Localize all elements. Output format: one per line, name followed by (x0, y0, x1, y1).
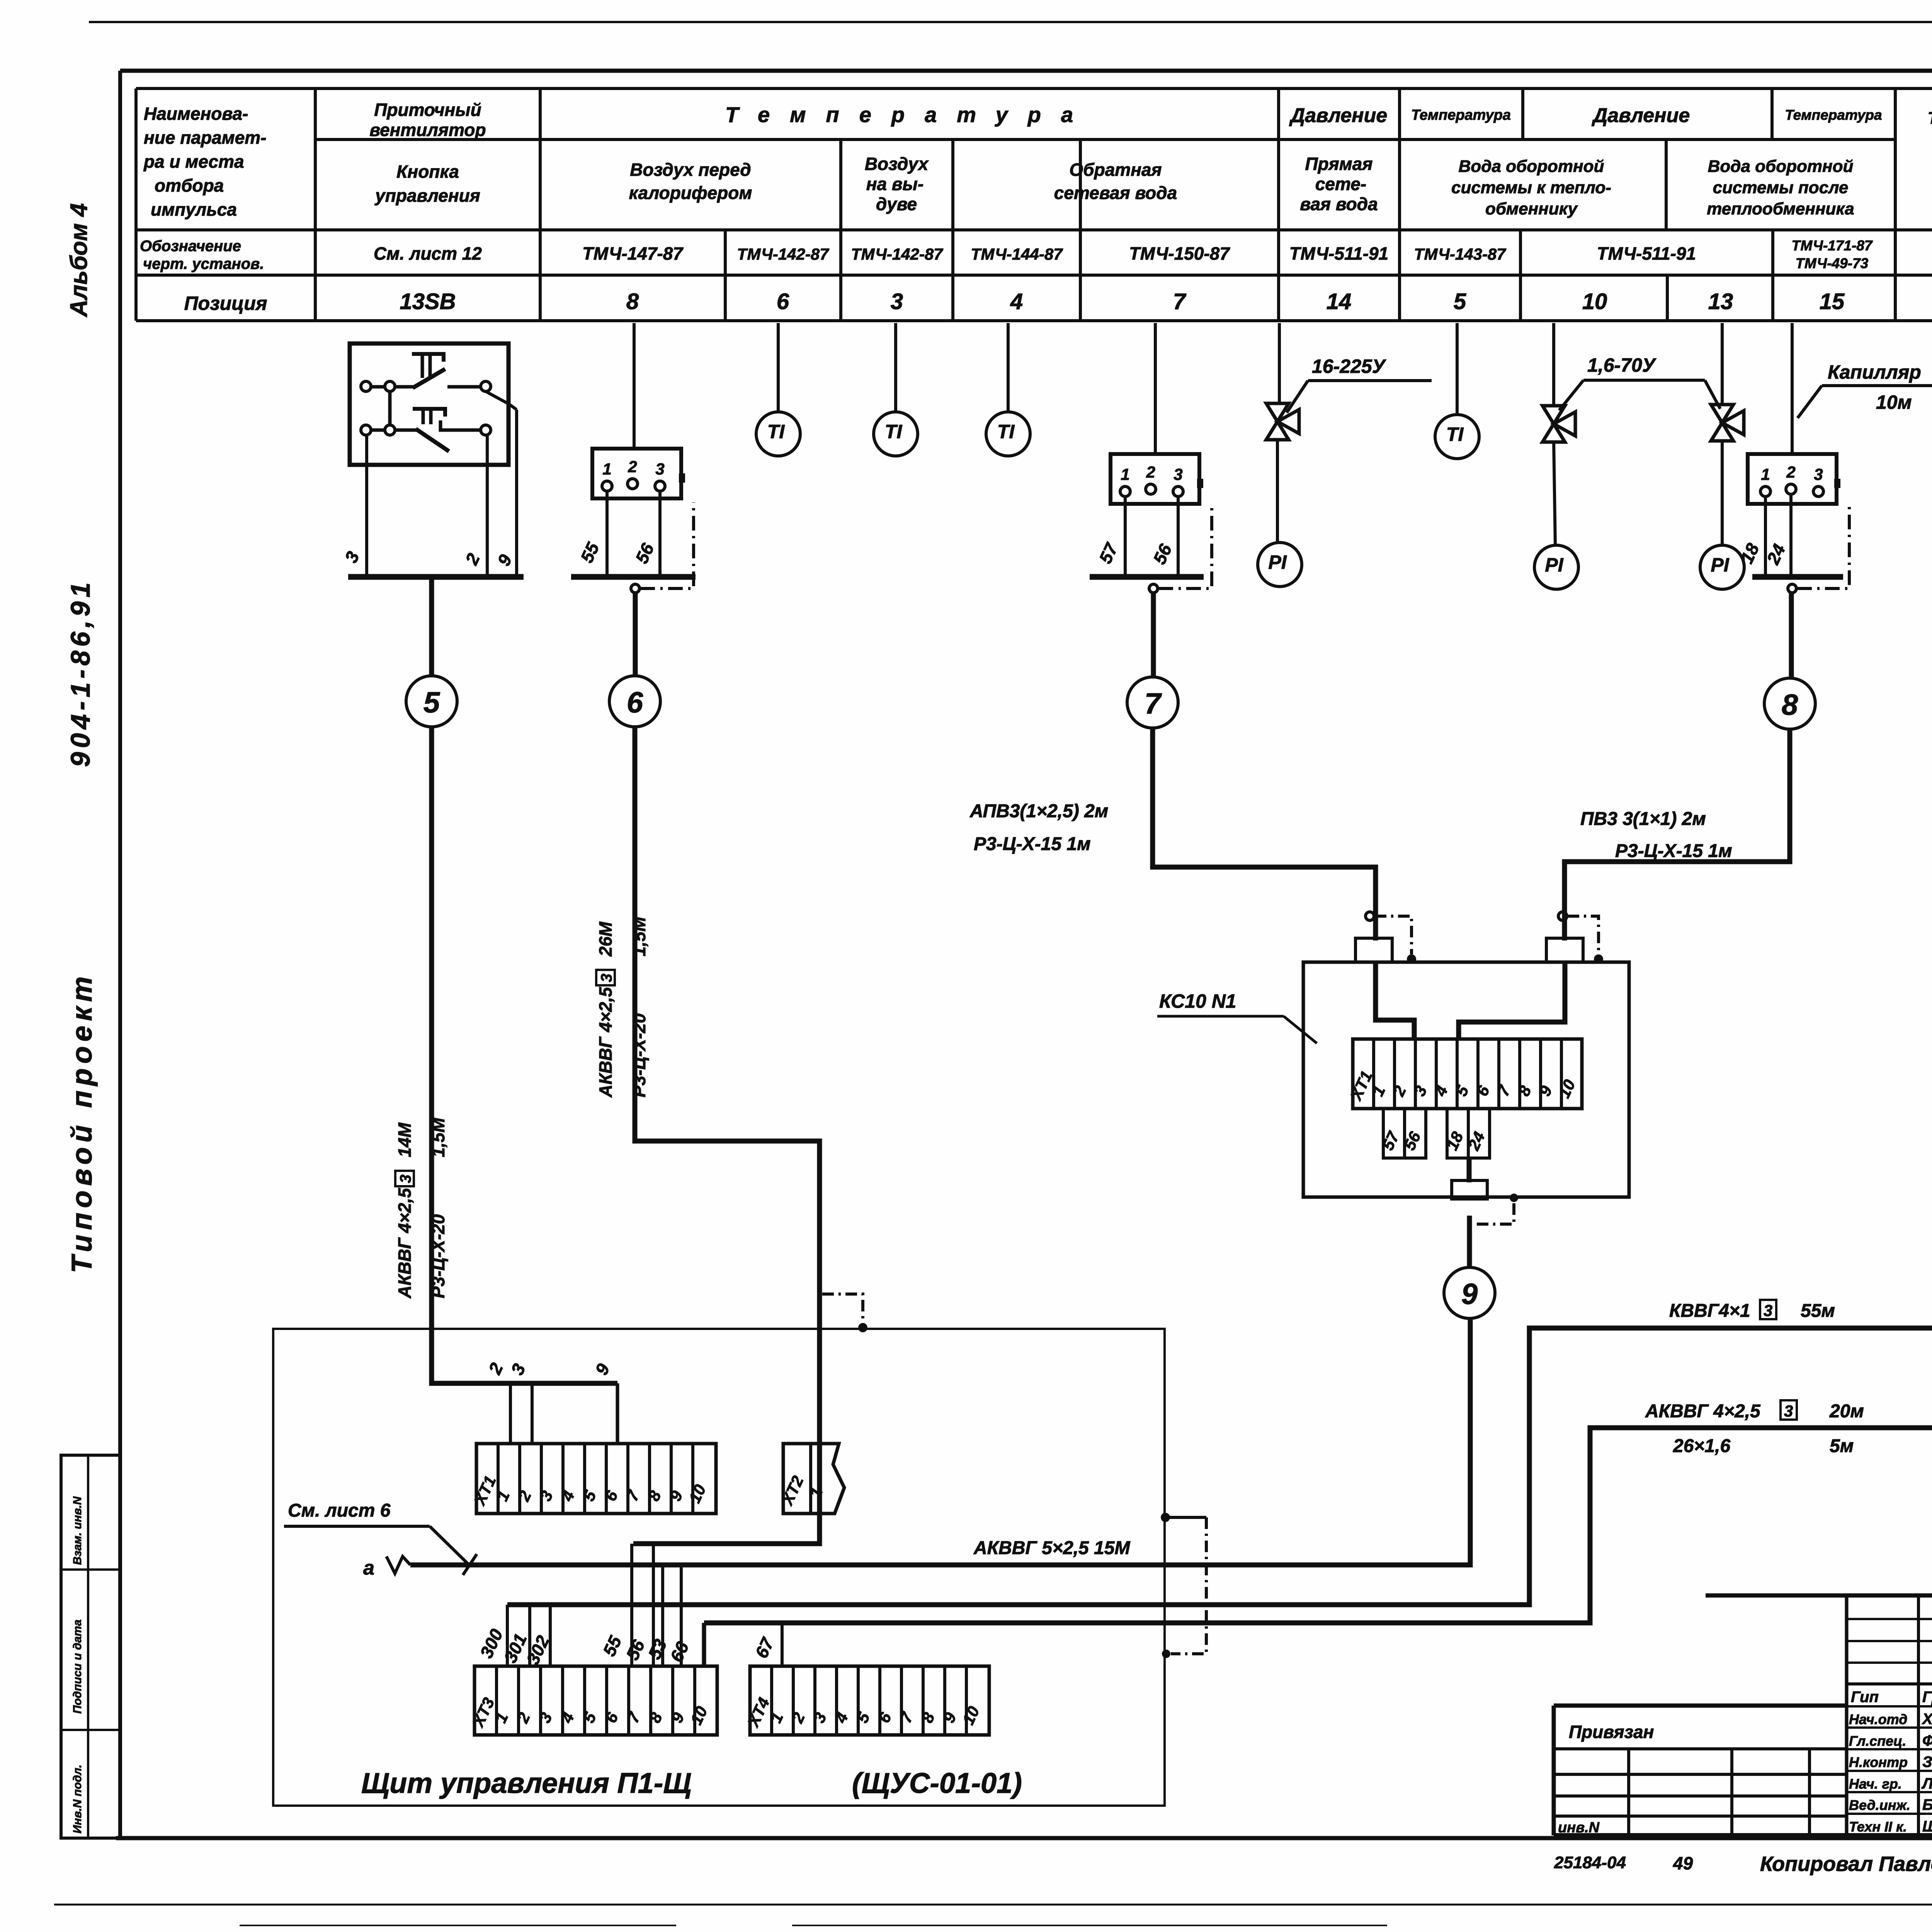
cable 5 run (432, 727, 617, 1383)
table row4 position texts (184, 289, 1932, 314)
svg-text:Обратная: Обратная (1069, 160, 1162, 180)
cable 11 long run (507, 730, 1932, 1605)
bottom margin texts (1554, 1850, 1932, 1876)
svg-text:(ЩУС-01-01): (ЩУС-01-01) (852, 1767, 1022, 1799)
svg-text:вентилятор: вентилятор (369, 120, 486, 140)
svg-text:Позиция: Позиция (184, 293, 267, 314)
svg-text:Р3-Ц-Х-20: Р3-Ц-Х-20 (428, 1214, 448, 1298)
svg-text:а: а (363, 1557, 374, 1579)
capillary label (1798, 361, 1932, 418)
valve pos 13 (1711, 405, 1744, 545)
cable 7 label (969, 801, 1108, 854)
KC10 output gland (1452, 1158, 1487, 1199)
svg-text:ТМЧ-147-87: ТМЧ-147-87 (582, 243, 684, 264)
panel terminal strip XT2 (778, 1444, 844, 1514)
svg-text:ТМЧ-511-91: ТМЧ-511-91 (1597, 243, 1696, 264)
TI bubble pos 6 (756, 412, 800, 456)
svg-text:TI: TI (1446, 423, 1464, 445)
svg-text:2: 2 (1786, 463, 1795, 481)
svg-text:Копировал Павлова: Копировал Павлова (1760, 1852, 1932, 1876)
KC10 junction box (1303, 962, 1629, 1197)
svg-text:Типовой проект: Типовой проект (66, 972, 98, 1273)
KC10 internal wiring left (1376, 962, 1414, 1039)
PI bubble pos 10 (1534, 545, 1578, 589)
svg-text:13SB: 13SB (400, 289, 456, 314)
wires 300 301 302 into XT3 (476, 1605, 553, 1668)
svg-text:TI: TI (885, 421, 903, 442)
valve pos 10 (1543, 406, 1575, 545)
svg-text:PI: PI (1711, 554, 1729, 576)
shield drain pos8 (1788, 506, 1849, 593)
svg-text:Фукс: Фукс (1922, 1732, 1932, 1749)
margin vertical text 904-1-86,91 (65, 578, 95, 767)
wire 67 into XT4 (751, 1623, 782, 1666)
wire 3 from button box (341, 435, 367, 577)
cable terminus bar pos6 (571, 574, 696, 580)
KC10 cable gland right (1546, 938, 1583, 962)
svg-text:20м: 20м (1829, 1401, 1864, 1422)
svg-text:системы к тепло-: системы к тепло- (1451, 178, 1611, 197)
svg-text:6: 6 (777, 289, 789, 314)
svg-text:ТМЧ-142-87: ТМЧ-142-87 (851, 245, 943, 263)
cable 8 run to KC10 (1565, 729, 1790, 940)
svg-text:См. лист 6: См. лист 6 (288, 1500, 391, 1521)
svg-text:АПВ3(1×2,5) 2м: АПВ3(1×2,5) 2м (969, 801, 1108, 821)
svg-text:ра и места: ра и места (143, 151, 244, 172)
sensor circle 7 (1127, 593, 1178, 728)
svg-text:ТМЧ-49-73: ТМЧ-49-73 (1796, 255, 1869, 271)
svg-text:904-1-86,91: 904-1-86,91 (65, 578, 95, 767)
svg-text:ПВ3 3(1×1) 2м: ПВ3 3(1×1) 2м (1580, 809, 1706, 829)
svg-text:3: 3 (1764, 1301, 1772, 1320)
svg-text:Техн II к.: Техн II к. (1849, 1819, 1907, 1835)
svg-text:Наименова-: Наименова- (144, 104, 248, 124)
svg-text:Р3-Ц-Х-15 1м: Р3-Ц-Х-15 1м (974, 834, 1091, 854)
svg-text:ТМЧ-144-87: ТМЧ-144-87 (971, 245, 1063, 263)
table row3 designation texts (140, 238, 1932, 272)
panel terminal strip XT3 (469, 1666, 717, 1735)
svg-text:Щит управления П1-Щ: Щит управления П1-Щ (361, 1767, 692, 1799)
wire 2 from button box (461, 435, 487, 577)
svg-text:Воздух перед: Воздух перед (630, 160, 751, 180)
svg-text:Давление: Давление (1592, 104, 1690, 127)
svg-text:8: 8 (1782, 689, 1798, 721)
svg-text:Гл.спец.: Гл.спец. (1849, 1733, 1906, 1749)
see sheet 6 note (284, 1500, 477, 1579)
svg-text:3: 3 (397, 1175, 414, 1183)
svg-text:См. лист 12: См. лист 12 (374, 243, 482, 264)
svg-text:1: 1 (602, 460, 611, 478)
svg-text:10: 10 (1582, 289, 1607, 314)
cable terminus bar pos5 (348, 574, 524, 580)
svg-text:3: 3 (891, 289, 903, 314)
svg-text:ТМЧ-171-87: ТМЧ-171-87 (1792, 238, 1873, 253)
svg-text:Прямая: Прямая (1305, 154, 1373, 174)
cable terminus bar pos8 (1752, 574, 1843, 580)
svg-text:9: 9 (1461, 1278, 1478, 1311)
svg-text:3: 3 (598, 974, 615, 982)
svg-text:TI: TI (997, 421, 1015, 442)
cable 10 label (1645, 1400, 1864, 1456)
svg-text:Вода оборотной: Вода оборотной (1459, 157, 1604, 176)
svg-text:Вода оборотной: Вода оборотной (1708, 157, 1854, 176)
svg-text:ние парамет-: ние парамет- (144, 128, 266, 148)
KC10 terminal strip XT1 (1347, 1039, 1582, 1109)
wires 53 66 into XT3 (644, 1565, 693, 1666)
cable 6 shield to panel (822, 1294, 867, 1332)
svg-text:7: 7 (1145, 687, 1162, 720)
table header texts (143, 100, 1932, 219)
svg-text:14М: 14М (395, 1122, 415, 1157)
svg-text:PI: PI (1268, 551, 1287, 573)
svg-text:5: 5 (1454, 289, 1466, 314)
KC10 sub strip 57 56 (1379, 1109, 1426, 1158)
wire 18 (1736, 497, 1765, 577)
panel terminal strip XT4 (744, 1666, 989, 1735)
wires 2 3 9 into XT1 (485, 1360, 617, 1444)
svg-text:Нач. гр.: Нач. гр. (1849, 1776, 1902, 1792)
sensor circle 8 (1764, 593, 1815, 729)
svg-text:АКВВГ 4×2,5: АКВВГ 4×2,5 (395, 1187, 415, 1299)
svg-text:Р3-Ц-Х-20: Р3-Ц-Х-20 (629, 1013, 649, 1097)
svg-text:Григорьян: Григорьян (1922, 1689, 1932, 1706)
terminal box pos 7 (1111, 454, 1203, 504)
KC10 cable gland left (1355, 938, 1392, 962)
sensor circle 9 (1444, 1216, 1495, 1318)
wire 9 from button box (493, 410, 517, 577)
KC10 internal wiring right (1459, 962, 1565, 1039)
terminal box pos 8 (592, 449, 685, 498)
parameter table grid (136, 88, 1932, 321)
terminal box pos 15 (1748, 454, 1840, 504)
cable 10 drop into XT3 (702, 1623, 706, 1666)
svg-text:1,5М: 1,5М (428, 1117, 448, 1157)
valve label 1,6-70U (1559, 354, 1720, 410)
TI bubble pos 5 (1435, 415, 1479, 459)
cable 5 label (395, 1117, 448, 1299)
svg-text:Температура: Температура (1411, 107, 1511, 123)
cable 9 run (410, 1318, 1470, 1565)
svg-text:Р3-Ц-Х-15 1м: Р3-Ц-Х-15 1м (1615, 841, 1732, 861)
cable 6 label (595, 916, 649, 1098)
KC10 output shield (1477, 1194, 1518, 1224)
title block outline (1554, 1595, 1932, 1835)
svg-text:ТМЧ-511-91: ТМЧ-511-91 (1289, 243, 1388, 264)
svg-text:Взам. инв.N: Взам. инв.N (71, 1496, 84, 1565)
panel terminal strip XT1 (470, 1444, 716, 1514)
svg-text:управления: управления (374, 185, 480, 206)
svg-text:Инв.N подл.: Инв.N подл. (71, 1765, 84, 1833)
valve 16-225U pos 14 (1266, 403, 1299, 543)
wire 55 (577, 491, 607, 577)
svg-text:Любимова: Любимова (1921, 1775, 1932, 1792)
sensor circle 5 (406, 580, 457, 727)
wire 66 pos9 (1931, 497, 1932, 577)
svg-text:4: 4 (1010, 289, 1023, 314)
svg-text:АКВВГ 5×2,5 15М: АКВВГ 5×2,5 15М (973, 1538, 1130, 1558)
svg-text:обменнику: обменнику (1485, 199, 1578, 218)
wire 56 (631, 491, 660, 577)
svg-text:Золотарева: Золотарева (1922, 1753, 1932, 1770)
KC10 sub strip 18 24 (1443, 1109, 1490, 1158)
svg-text:инв.N: инв.N (1558, 1820, 1600, 1836)
svg-text:3: 3 (655, 460, 664, 478)
svg-text:1,5М: 1,5М (629, 916, 649, 956)
svg-text:1: 1 (1121, 465, 1129, 483)
svg-text:25184-04: 25184-04 (1554, 1853, 1626, 1872)
control button box 13SB (350, 344, 517, 465)
svg-text:16-225У: 16-225У (1312, 355, 1387, 377)
svg-text:3: 3 (1784, 1402, 1793, 1420)
svg-text:Приточный: Приточный (374, 100, 481, 120)
control panel enclosure (273, 1329, 1165, 1806)
svg-text:3: 3 (1814, 465, 1823, 483)
svg-text:26×1,6: 26×1,6 (1673, 1436, 1730, 1456)
shield stub right (1558, 912, 1603, 964)
attachment box rows (1554, 1722, 1847, 1836)
margin vertical text project (66, 972, 98, 1273)
svg-text:дуве: дуве (876, 194, 917, 214)
panel shield tie top (1161, 1513, 1206, 1658)
svg-text:49: 49 (1673, 1853, 1693, 1873)
svg-text:5м: 5м (1830, 1436, 1854, 1456)
margin vertical text Album 4 (66, 203, 92, 318)
svg-text:15: 15 (1820, 289, 1845, 314)
svg-text:Подписи и дата: Подписи и дата (71, 1619, 84, 1714)
svg-text:отбора: отбора (155, 175, 224, 196)
lead wires from table to instruments (634, 323, 1932, 454)
svg-text:Вед.инж.: Вед.инж. (1849, 1797, 1910, 1813)
svg-text:Температура: Температура (1785, 107, 1882, 123)
KC10 label (1157, 990, 1317, 1043)
svg-text:2: 2 (1146, 463, 1155, 481)
svg-text:6: 6 (627, 686, 643, 719)
svg-text:сете-: сете- (1315, 174, 1366, 194)
svg-text:PI: PI (1545, 554, 1563, 576)
PI bubble pos 14 (1258, 543, 1302, 587)
wire 57 (1095, 497, 1125, 577)
svg-text:Кнопка: Кнопка (396, 162, 459, 182)
svg-text:Капилляр: Капилляр (1828, 361, 1921, 383)
PI bubble pos 13 (1700, 545, 1744, 589)
svg-text:Гип: Гип (1851, 1689, 1879, 1706)
svg-text:Нач.отд: Нач.отд (1849, 1711, 1907, 1727)
svg-text:ТМЧ-150-87: ТМЧ-150-87 (1129, 243, 1230, 264)
svg-text:КС10 N1: КС10 N1 (1159, 990, 1236, 1012)
svg-text:ТМЧ-143-87: ТМЧ-143-87 (1414, 245, 1506, 263)
svg-text:Температура: Температура (1928, 109, 1932, 128)
wire 56 pos7 (1149, 497, 1178, 577)
svg-text:5: 5 (423, 686, 440, 719)
cable 6 run (633, 727, 820, 1544)
svg-text:13: 13 (1708, 289, 1733, 314)
wire 24 (1763, 494, 1791, 577)
cable 11 label (1669, 1300, 1835, 1321)
svg-text:Воздух: Воздух (865, 154, 929, 174)
cable 9 label (973, 1538, 1130, 1558)
svg-text:1,6-70У: 1,6-70У (1587, 354, 1657, 376)
sensor circle 6 (609, 593, 660, 727)
TI bubble pos 3 (874, 412, 918, 456)
svg-text:Бутенко: Бутенко (1922, 1796, 1932, 1813)
panel caption (361, 1767, 1022, 1799)
svg-text:10м: 10м (1876, 391, 1912, 413)
TI bubble pos 4 (986, 412, 1030, 456)
signature table (1847, 1595, 1932, 1835)
cable terminus bar pos7 (1090, 574, 1204, 580)
svg-text:TI: TI (767, 421, 785, 442)
svg-text:теплообменника: теплообменника (1707, 199, 1854, 218)
svg-text:на вы-: на вы- (866, 174, 924, 194)
cable 10 long run (704, 729, 1932, 1623)
svg-text:импульса: импульса (151, 199, 237, 219)
svg-text:сетевая вода: сетевая вода (1054, 183, 1177, 203)
margin stamp table (61, 1455, 120, 1838)
svg-text:Шрамко: Шрамко (1922, 1818, 1932, 1835)
shield stub left (1366, 912, 1416, 964)
svg-text:2: 2 (628, 457, 637, 476)
svg-text:Обозначение: Обозначение (140, 238, 241, 255)
svg-text:8: 8 (626, 289, 639, 314)
svg-text:26М: 26М (595, 921, 616, 957)
svg-text:Христофоров: Христофоров (1922, 1711, 1932, 1728)
svg-text:КВВГ4×1: КВВГ4×1 (1669, 1301, 1750, 1321)
svg-text:Привязан: Привязан (1569, 1722, 1654, 1742)
svg-text:калорифером: калорифером (629, 183, 752, 203)
svg-text:7: 7 (1173, 289, 1187, 314)
svg-text:Н.контр: Н.контр (1849, 1754, 1908, 1770)
svg-text:14: 14 (1327, 289, 1352, 314)
svg-text:вая вода: вая вода (1300, 194, 1378, 214)
cable 8 label (1580, 809, 1732, 861)
valve label 16-225U (1287, 355, 1432, 413)
svg-text:Давление: Давление (1289, 104, 1388, 127)
svg-text:АКВВГ 4×2,5: АКВВГ 4×2,5 (1645, 1401, 1761, 1422)
svg-text:Альбом 4: Альбом 4 (66, 203, 92, 318)
shield drain pos6 (631, 502, 694, 593)
svg-text:системы после: системы после (1713, 178, 1849, 197)
svg-text:3: 3 (1173, 465, 1182, 483)
svg-text:1: 1 (1761, 465, 1770, 483)
svg-text:АКВВГ 4×2,5: АКВВГ 4×2,5 (595, 986, 616, 1098)
svg-text:черт. установ.: черт. установ. (143, 255, 264, 272)
cable 7 run to KC10 (1153, 728, 1376, 940)
shield drain pos7 (1149, 506, 1212, 593)
svg-text:Температура: Температура (725, 102, 1093, 127)
svg-text:ТМЧ-142-87: ТМЧ-142-87 (737, 245, 829, 263)
wires 55 56 into XT3 (599, 1544, 653, 1666)
svg-text:55м: 55м (1801, 1301, 1835, 1321)
